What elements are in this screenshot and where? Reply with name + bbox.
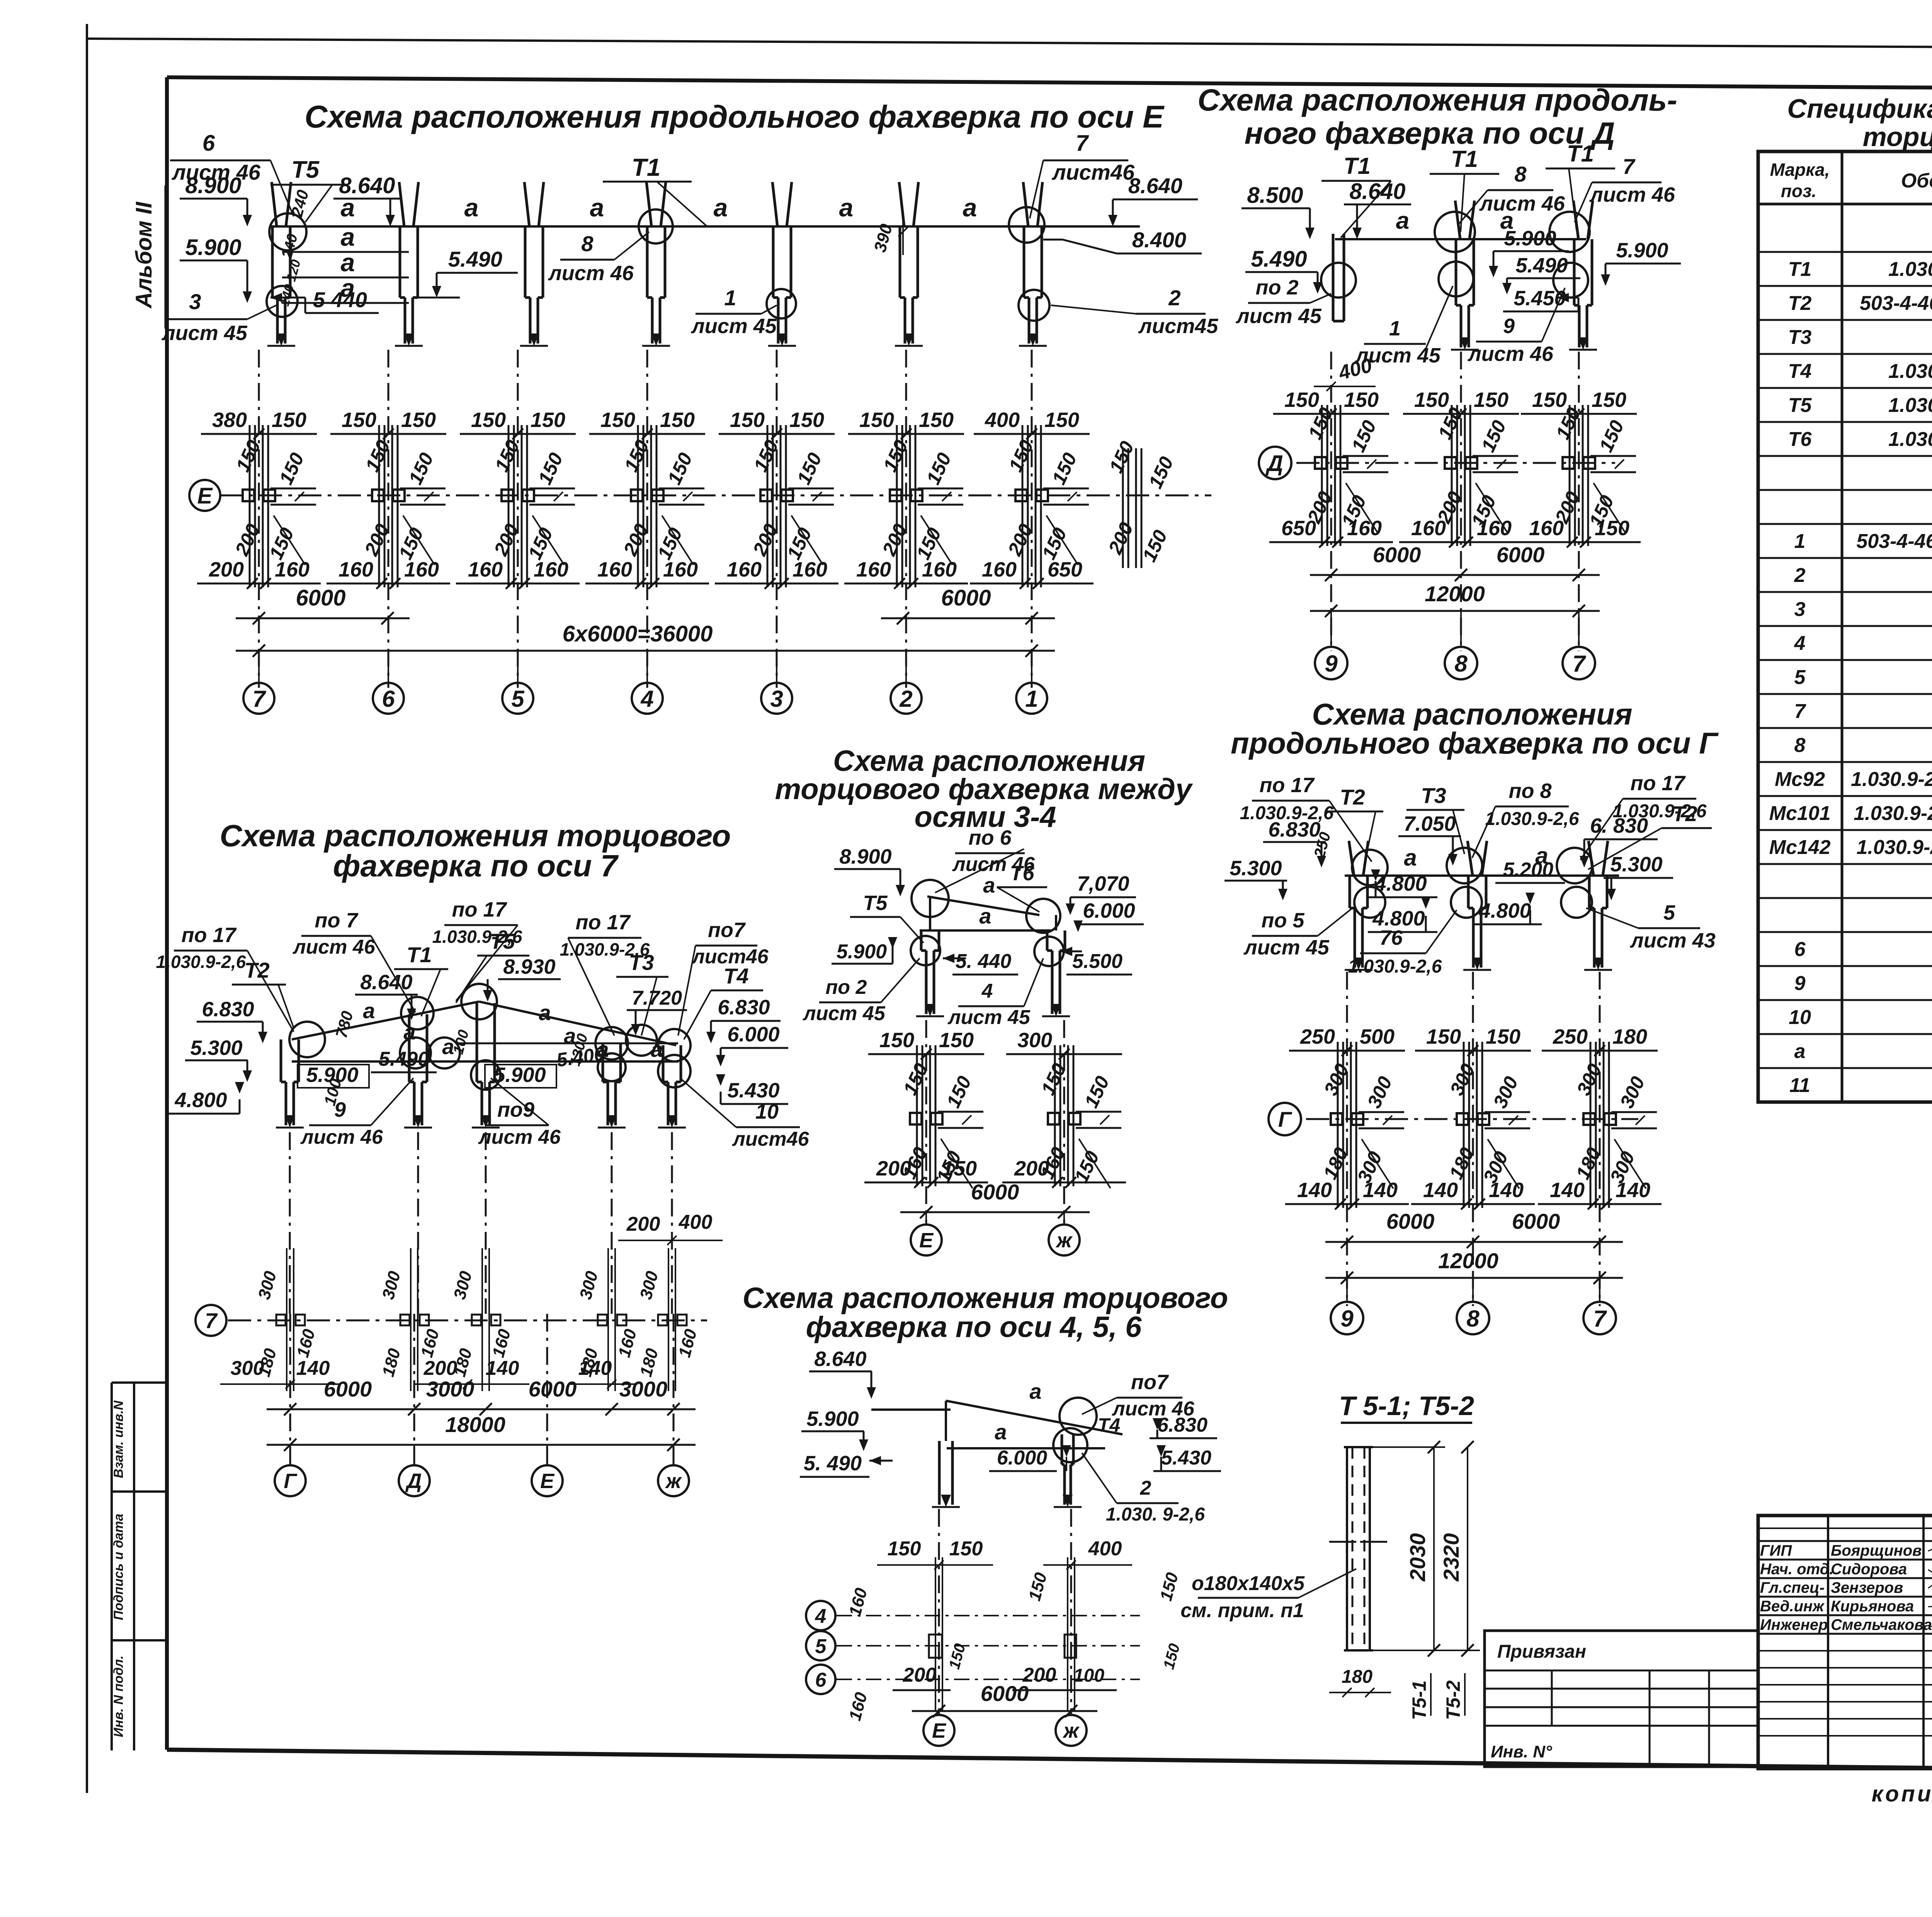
svg-text:а: а bbox=[995, 1420, 1007, 1444]
callout po9 list46 axis7 bbox=[478, 1078, 561, 1148]
plan right offset section axis E bbox=[1104, 438, 1178, 568]
svg-text:5: 5 bbox=[1794, 666, 1806, 689]
svg-text:5.900: 5.900 bbox=[806, 1407, 859, 1431]
callout po7 list46 axis7 bbox=[292, 909, 415, 1012]
svg-text:поз.: поз. bbox=[1781, 181, 1816, 201]
svg-text:Инженер: Инженер bbox=[1760, 1616, 1828, 1633]
svg-text:150: 150 bbox=[1344, 388, 1379, 412]
svg-text:а: а bbox=[341, 223, 355, 251]
axis circle 6 bbox=[373, 651, 404, 714]
svg-text:400: 400 bbox=[985, 408, 1020, 432]
plan section axis 4 on E bbox=[585, 408, 709, 589]
spec table heading bbox=[1787, 94, 1932, 152]
svg-text:11: 11 bbox=[1789, 1074, 1810, 1097]
callout 7.050 axis G bbox=[1398, 812, 1461, 866]
elevation 5.900 boxed left axis7 bbox=[298, 1063, 369, 1088]
svg-text:а: а bbox=[590, 193, 604, 222]
dim row 6000 3000 axis7 bbox=[267, 1377, 696, 1415]
rot dims 780 100 axis7 bbox=[320, 1009, 591, 1107]
svg-text:160: 160 bbox=[468, 558, 503, 581]
spec row 7 bbox=[1758, 693, 1932, 695]
spec row Детали bbox=[1758, 897, 1932, 899]
svg-text:140: 140 bbox=[578, 1357, 612, 1379]
svg-text:1.030.9-2 Вып. 4: 1.030.9-2 Вып. 4 bbox=[1888, 428, 1932, 451]
svg-text:5.200: 5.200 bbox=[1503, 859, 1553, 881]
column axis E #6 bbox=[395, 182, 423, 346]
svg-text:лист 46: лист 46 bbox=[292, 936, 376, 958]
svg-text:7,070: 7,070 bbox=[1077, 872, 1129, 895]
svg-text:лист 45: лист 45 bbox=[802, 1002, 886, 1025]
dim row 18000 axis7 bbox=[267, 1412, 696, 1451]
axis circle 8 on D bbox=[1445, 611, 1477, 679]
svg-text:а: а bbox=[714, 193, 728, 222]
svg-text:6000: 6000 bbox=[971, 1180, 1019, 1204]
callout po17 right axis7 bbox=[560, 911, 650, 1036]
column axis E #1 bbox=[1019, 182, 1047, 346]
callout T2 right axis G bbox=[1588, 801, 1712, 869]
svg-text:1: 1 bbox=[1389, 317, 1401, 340]
svg-text:3000: 3000 bbox=[619, 1377, 668, 1401]
elevation 6.000 right axis7 bbox=[716, 1023, 788, 1067]
spec row Т1 bbox=[1758, 251, 1932, 253]
svg-text:1.030.9-2 Вып. 4: 1.030.9-2 Вып. 4 bbox=[1888, 394, 1932, 417]
svg-text:Смельчакова: Смельчакова bbox=[1831, 1616, 1932, 1633]
svg-text:6.830: 6.830 bbox=[1157, 1414, 1207, 1436]
plan section 7 on G bbox=[1538, 1025, 1662, 1209]
plan section col0 on axis7 bbox=[255, 1248, 319, 1391]
svg-text:5.300: 5.300 bbox=[190, 1036, 242, 1060]
callout po17 left axis G bbox=[1240, 774, 1372, 862]
svg-text:12000: 12000 bbox=[1425, 582, 1485, 606]
svg-text:6000: 6000 bbox=[1386, 1209, 1435, 1233]
elevation 5.300 left axis G bbox=[1225, 857, 1287, 900]
svg-text:Мс101: Мс101 bbox=[1769, 802, 1831, 825]
svg-text:650: 650 bbox=[1048, 558, 1082, 581]
detail T5 row labels bbox=[1408, 1673, 1465, 1720]
spec row Т5 bbox=[1758, 387, 1932, 389]
svg-text:8: 8 bbox=[581, 231, 594, 256]
detail T5 dim 2320 bbox=[1373, 1441, 1480, 1657]
svg-text:по 6: по 6 bbox=[968, 826, 1012, 849]
svg-text:6000: 6000 bbox=[529, 1377, 577, 1401]
svg-text:180: 180 bbox=[1342, 1667, 1372, 1687]
dim row 6000 4-5-6 bbox=[912, 1681, 1097, 1717]
svg-text:Схема расположения продольного: Схема расположения продольного фахверка … bbox=[304, 99, 1165, 134]
svg-text:150: 150 bbox=[1532, 388, 1567, 412]
detail T5 dim 2030 bbox=[1373, 1441, 1445, 1657]
svg-text:200: 200 bbox=[876, 1157, 911, 1180]
svg-text:по 2: по 2 bbox=[826, 976, 867, 998]
spec table grid bbox=[1758, 151, 1932, 1102]
spec row 5 bbox=[1758, 659, 1932, 661]
svg-text:лист 46: лист 46 bbox=[478, 1126, 561, 1148]
svg-text:160: 160 bbox=[982, 558, 1017, 581]
svg-text:150: 150 bbox=[730, 408, 765, 432]
svg-text:5.490: 5.490 bbox=[1515, 254, 1568, 277]
svg-text:Мс142: Мс142 bbox=[1769, 836, 1831, 859]
circles axis D bbox=[1321, 212, 1590, 298]
svg-text:Инв. N°: Инв. N° bbox=[1491, 1742, 1552, 1761]
column axis G #1 bbox=[1463, 841, 1491, 970]
svg-text:а: а bbox=[1029, 1379, 1041, 1403]
plan centerline axis 7 scheme bbox=[196, 1305, 707, 1336]
svg-text:160: 160 bbox=[922, 558, 957, 581]
elevation 4.800 labels axis G bbox=[1368, 869, 1542, 932]
svg-text:150: 150 bbox=[1426, 1025, 1461, 1048]
axis circle Е on axis7 bbox=[532, 1445, 563, 1496]
svg-text:4.800: 4.800 bbox=[1478, 899, 1531, 922]
callout 9 list46 axis7 bbox=[300, 1078, 413, 1148]
elevation 8.640 axis E bbox=[333, 173, 401, 226]
svg-text:150: 150 bbox=[949, 1538, 983, 1560]
svg-text:Т5: Т5 bbox=[490, 929, 515, 953]
svg-text:Т4: Т4 bbox=[723, 964, 748, 988]
callout T6 3-4 bbox=[997, 862, 1047, 912]
svg-text:150: 150 bbox=[660, 408, 695, 432]
elevation 8.640 axis7 bbox=[355, 971, 418, 1020]
svg-text:160: 160 bbox=[275, 558, 310, 581]
svg-text:Т2: Т2 bbox=[1672, 801, 1697, 826]
svg-text:4: 4 bbox=[981, 980, 993, 1002]
svg-text:см. прим. п1: см. прим. п1 bbox=[1180, 1599, 1304, 1622]
svg-text:Схема расположения продоль-: Схема расположения продоль- bbox=[1197, 83, 1677, 117]
svg-text:140: 140 bbox=[1423, 1179, 1458, 1202]
elevation 5.900 4-5-6 bbox=[801, 1407, 868, 1451]
beam T1 top chord axis E bbox=[270, 153, 1140, 226]
spec row 10 bbox=[1758, 999, 1932, 1001]
svg-text:5.430: 5.430 bbox=[1161, 1447, 1211, 1469]
svg-text:фахверка по оси 4, 5, 6: фахверка по оси 4, 5, 6 bbox=[806, 1311, 1142, 1344]
top line and slope 4-5-6 bbox=[871, 1379, 1122, 1448]
svg-text:300: 300 bbox=[231, 1357, 264, 1379]
svg-text:2320: 2320 bbox=[1439, 1533, 1463, 1582]
axis circle Д on axis7 bbox=[399, 1445, 430, 1496]
callout po7 list46 4-5-6 bbox=[1082, 1371, 1195, 1420]
svg-text:Т3: Т3 bbox=[1788, 326, 1812, 349]
dim 400 axis D bbox=[1314, 354, 1376, 391]
column axis E #3 bbox=[768, 182, 796, 346]
callout 2 1.030.9-2,6 4-5-6 bbox=[1082, 1453, 1205, 1525]
axis verticals 3-4 bbox=[926, 1020, 1064, 1223]
elevation 6.830 right axis G bbox=[1580, 814, 1658, 867]
svg-text:8: 8 bbox=[1454, 651, 1468, 677]
elevation 5.300 axis7 bbox=[185, 1036, 252, 1082]
svg-text:торцового фахверка перегоро: торцового фахверка перегородок bbox=[1863, 122, 1932, 152]
callout T1 axis7 bbox=[394, 942, 448, 1016]
svg-text:150: 150 bbox=[789, 408, 824, 432]
svg-text:а: а bbox=[839, 193, 854, 222]
dim row 12000 axis D bbox=[1310, 582, 1600, 617]
elevation 8.500 axis D bbox=[1242, 183, 1315, 239]
svg-text:5.900: 5.900 bbox=[185, 235, 241, 260]
axis circle 2 bbox=[891, 651, 922, 714]
svg-text:150: 150 bbox=[888, 1538, 921, 1560]
svg-text:а: а bbox=[539, 1000, 551, 1025]
elevation 8.640 axis D bbox=[1344, 179, 1411, 239]
elevation 6.830 4-5-6 bbox=[1150, 1414, 1217, 1438]
svg-text:Схема расположения торцового: Схема расположения торцового bbox=[220, 818, 731, 853]
elevation 8.640 4-5-6 bbox=[809, 1347, 876, 1399]
svg-text:5.900: 5.900 bbox=[493, 1063, 546, 1087]
elevation 6.830 left axis G bbox=[1263, 818, 1326, 867]
columns 3-4 bbox=[916, 896, 1070, 1016]
svg-text:6000: 6000 bbox=[941, 585, 991, 611]
svg-text:1.030.9-2 Вып. 7часть2: 1.030.9-2 Вып. 7часть2 bbox=[1851, 768, 1932, 791]
svg-text:503-4-46.87- КЖИ-Т5-1: 503-4-46.87- КЖИ-Т5-1 bbox=[1860, 292, 1932, 315]
svg-text:5.490: 5.490 bbox=[448, 247, 502, 271]
svg-text:100: 100 bbox=[1073, 1665, 1104, 1686]
callout T3 axis7 bbox=[616, 950, 668, 1036]
svg-text:по 2: по 2 bbox=[1255, 276, 1298, 299]
elevation 5.490 axis7 bbox=[371, 1048, 437, 1072]
svg-text:3: 3 bbox=[189, 289, 201, 314]
svg-text:Т5: Т5 bbox=[863, 891, 888, 915]
callout T5 bbox=[270, 156, 348, 222]
svg-text:по 7: по 7 bbox=[315, 909, 359, 932]
svg-text:лист 43: лист 43 bbox=[1629, 929, 1716, 952]
axis verticals axis D bbox=[1331, 352, 1579, 651]
elevation 5.440 axis E bbox=[270, 287, 379, 313]
svg-text:150: 150 bbox=[531, 408, 565, 432]
plan section axis 1 on E bbox=[970, 408, 1094, 589]
svg-text:лист 45: лист 45 bbox=[1235, 304, 1322, 328]
svg-text:5.430: 5.430 bbox=[727, 1079, 779, 1102]
svg-text:7: 7 bbox=[252, 686, 266, 712]
spec row 8 bbox=[1758, 727, 1932, 729]
svg-text:Подпись и дата: Подпись и дата bbox=[111, 1514, 126, 1620]
plan section axis 3 on E bbox=[715, 408, 838, 589]
spec row Изделиясоединительные bbox=[1758, 489, 1932, 491]
callout T2 axis G bbox=[1325, 785, 1383, 866]
svg-text:380: 380 bbox=[212, 408, 247, 432]
callout po17 peak axis7 bbox=[432, 898, 522, 1001]
svg-text:5.300: 5.300 bbox=[1230, 857, 1282, 880]
svg-text:8.900: 8.900 bbox=[185, 173, 241, 198]
svg-text:а: а bbox=[341, 248, 355, 277]
svg-text:140: 140 bbox=[1550, 1179, 1585, 1202]
callout po5 list45 axis G bbox=[1243, 908, 1352, 959]
privyazan box bbox=[1485, 1631, 1758, 1767]
callout 6.000 3-4 bbox=[1073, 899, 1144, 932]
svg-text:6.000: 6.000 bbox=[727, 1023, 779, 1046]
elevation 5.900 3-4 bbox=[832, 937, 897, 964]
svg-text:6: 6 bbox=[815, 1669, 827, 1691]
detail T5 column body bbox=[1329, 1447, 1387, 1650]
svg-text:150: 150 bbox=[1595, 517, 1629, 540]
svg-text:лист 45: лист 45 bbox=[1243, 936, 1330, 959]
callout 8.900 3-4 bbox=[834, 845, 905, 896]
dim row 36000 axis E bbox=[236, 621, 1055, 657]
svg-text:160: 160 bbox=[338, 558, 373, 581]
svg-text:ж: ж bbox=[665, 1470, 682, 1493]
svg-text:10: 10 bbox=[1789, 1006, 1811, 1029]
svg-text:Т3: Т3 bbox=[629, 950, 654, 975]
svg-text:а: а bbox=[464, 193, 479, 222]
svg-text:18000: 18000 bbox=[445, 1412, 505, 1437]
svg-text:копировал Муртазина: копировал Муртазина bbox=[1872, 1781, 1932, 1806]
svg-text:150: 150 bbox=[859, 408, 894, 432]
spec row Т2 bbox=[1758, 285, 1932, 287]
svg-text:150: 150 bbox=[272, 408, 306, 432]
callout 5 list43 axis G bbox=[1586, 901, 1716, 952]
callout 7.070 3-4 bbox=[1066, 872, 1136, 915]
svg-text:1.030.9-2Вып.7часть 2: 1.030.9-2Вып.7часть 2 bbox=[1854, 802, 1932, 825]
axis circle Г on axis7 bbox=[275, 1445, 306, 1496]
svg-text:1: 1 bbox=[1794, 530, 1806, 553]
svg-text:6.830: 6.830 bbox=[1268, 818, 1320, 841]
detail T5-1 T5-2 title bbox=[1339, 1391, 1474, 1423]
callout T4 4-5-6 bbox=[1098, 1414, 1120, 1436]
axis verticals axis 7 scheme bbox=[290, 1132, 673, 1465]
dim 390 axis E bbox=[871, 216, 908, 255]
svg-text:по 17: по 17 bbox=[575, 911, 631, 934]
callout po17 right axis G bbox=[1580, 772, 1707, 860]
axis circle ж on axis7 bbox=[658, 1445, 689, 1496]
axis circle 1 bbox=[1016, 651, 1047, 714]
callout T5 3-4 bbox=[850, 891, 923, 943]
svg-text:3: 3 bbox=[770, 686, 783, 712]
footer annotations bbox=[1872, 1781, 1932, 1806]
svg-text:7: 7 bbox=[1572, 651, 1586, 677]
svg-text:1.030.9-2.Вып. 4: 1.030.9-2.Вып. 4 bbox=[1888, 360, 1932, 383]
svg-text:лист 46: лист 46 bbox=[1589, 183, 1675, 206]
svg-text:200: 200 bbox=[423, 1357, 457, 1379]
svg-text:Т2: Т2 bbox=[244, 958, 269, 982]
svg-text:250: 250 bbox=[1300, 1025, 1335, 1048]
svg-text:7: 7 bbox=[1593, 1306, 1607, 1332]
axis circle 9 on G bbox=[1331, 1278, 1363, 1334]
axis circle 7 bbox=[243, 651, 274, 714]
beam line axis G bbox=[1345, 843, 1619, 876]
svg-text:9: 9 bbox=[1503, 315, 1515, 338]
svg-text:Т6: Т6 bbox=[1010, 862, 1034, 885]
svg-text:5. 440: 5. 440 bbox=[956, 950, 1012, 973]
svg-text:5: 5 bbox=[1663, 901, 1675, 924]
svg-text:6.000: 6.000 bbox=[997, 1447, 1047, 1469]
svg-text:Т4: Т4 bbox=[1098, 1414, 1120, 1436]
svg-text:по 17: по 17 bbox=[1259, 774, 1315, 797]
scheme axis G title bbox=[1231, 697, 1719, 760]
svg-text:140: 140 bbox=[1489, 1179, 1524, 1202]
svg-text:а: а bbox=[1404, 845, 1417, 871]
plan section axis 9 on D bbox=[1269, 388, 1393, 548]
callout T4 axis7 bbox=[684, 964, 763, 1039]
svg-text:150: 150 bbox=[1474, 388, 1509, 412]
spec row 11 bbox=[1758, 1067, 1932, 1069]
plan section 9 on G bbox=[1285, 1025, 1409, 1209]
elevation 7.720 axis7 bbox=[627, 987, 687, 1036]
svg-text:2030: 2030 bbox=[1405, 1533, 1430, 1582]
svg-text:8.930: 8.930 bbox=[503, 955, 555, 978]
elevation 5.900 mid axis D bbox=[1489, 227, 1569, 277]
svg-text:Обозначение: Обозначение bbox=[1901, 170, 1932, 192]
plan section axis 7 on E bbox=[197, 408, 321, 589]
dim row 12000 axis G bbox=[1325, 1249, 1623, 1284]
svg-text:по 17: по 17 bbox=[181, 924, 237, 947]
elevation 5.500 3-4 bbox=[1061, 947, 1132, 975]
elevation 5.490 axis E bbox=[415, 247, 518, 298]
svg-text:1.030. 9-2,6: 1.030. 9-2,6 bbox=[1106, 1504, 1205, 1525]
svg-text:5: 5 bbox=[815, 1635, 827, 1658]
column axis D right bbox=[1546, 141, 1615, 350]
axis verticals axis E bbox=[259, 350, 1032, 688]
svg-text:5. 490: 5. 490 bbox=[804, 1452, 862, 1475]
svg-text:5.490: 5.490 bbox=[1251, 247, 1307, 272]
elevation 5.430 axis7 bbox=[716, 1074, 788, 1104]
svg-text:Т2: Т2 bbox=[1788, 292, 1812, 315]
svg-text:400: 400 bbox=[679, 1211, 713, 1233]
column axis E #5 bbox=[520, 182, 548, 346]
spec row Мс92 bbox=[1758, 761, 1932, 763]
right column 4-5-6 bbox=[1054, 1434, 1082, 1507]
svg-text:Мс92: Мс92 bbox=[1775, 768, 1825, 791]
column axis7 #0 bbox=[276, 1039, 304, 1128]
svg-text:503-4-46.87 - КЖИ-МС2: 503-4-46.87 - КЖИ-МС2 bbox=[1856, 530, 1932, 553]
axis circle 5 bbox=[502, 651, 533, 714]
svg-text:лист 46: лист 46 bbox=[300, 1126, 383, 1148]
plan section axis 6 on E bbox=[327, 408, 450, 589]
svg-text:а: а bbox=[363, 998, 375, 1023]
svg-text:150: 150 bbox=[1486, 1025, 1520, 1048]
callout 1 list 45 bbox=[690, 286, 777, 338]
title block staff grid bbox=[1758, 1516, 1932, 1769]
svg-text:лист 45: лист 45 bbox=[161, 321, 248, 345]
svg-text:8.500: 8.500 bbox=[1247, 183, 1303, 208]
callout po7 right axis7 bbox=[678, 919, 769, 1036]
detail T5 annotation bbox=[1180, 1569, 1356, 1622]
svg-text:5.900: 5.900 bbox=[1616, 239, 1668, 262]
svg-text:а: а bbox=[979, 904, 991, 928]
svg-text:лист 46: лист 46 bbox=[1479, 192, 1565, 215]
svg-text:Е: Е bbox=[197, 483, 213, 509]
circles axis G bbox=[1352, 848, 1592, 918]
elevation 8.900 axis E bbox=[180, 173, 252, 226]
callout T3 axis G bbox=[1406, 783, 1464, 854]
svg-text:6000: 6000 bbox=[1497, 543, 1545, 567]
a labels axis 7 bbox=[363, 998, 663, 1061]
spec row 4 bbox=[1758, 625, 1932, 627]
svg-text:6: 6 bbox=[1794, 938, 1806, 961]
plan centerline axis G bbox=[1269, 1103, 1638, 1135]
title block outline bbox=[1758, 1516, 1932, 1769]
svg-text:по7: по7 bbox=[708, 919, 746, 942]
elevation 4.800 axis7 bbox=[168, 1082, 244, 1114]
elevation 6.830 right axis7 bbox=[706, 996, 781, 1043]
column axis D middle bbox=[1430, 146, 1499, 350]
svg-text:200: 200 bbox=[209, 558, 244, 581]
svg-text:12000: 12000 bbox=[1438, 1249, 1498, 1273]
svg-text:по 8: по 8 bbox=[1509, 779, 1551, 803]
svg-text:8.900: 8.900 bbox=[839, 845, 891, 868]
svg-text:150: 150 bbox=[939, 1029, 974, 1052]
elevation 5.490 4-5-6 bbox=[800, 1452, 893, 1477]
svg-text:160: 160 bbox=[1411, 517, 1446, 540]
axis circle 7 on G bbox=[1583, 1278, 1616, 1334]
svg-text:6: 6 bbox=[382, 686, 395, 712]
svg-text:500: 500 bbox=[1360, 1025, 1395, 1048]
elevation 5.300 right axis G bbox=[1604, 853, 1673, 900]
svg-text:Сидорова: Сидорова bbox=[1831, 1561, 1907, 1578]
circles 3-4 bbox=[911, 880, 1064, 966]
column axis7 #2 bbox=[472, 1003, 500, 1128]
svg-text:300: 300 bbox=[1017, 1029, 1052, 1052]
svg-text:Е: Е bbox=[919, 1229, 934, 1252]
svg-text:Г: Г bbox=[1278, 1107, 1293, 1131]
svg-text:150: 150 bbox=[471, 408, 506, 432]
spec row 3 bbox=[1758, 591, 1932, 593]
svg-text:Спецификация к схемам распо: Спецификация к схемам расположения продо… bbox=[1787, 94, 1932, 124]
svg-text:8: 8 bbox=[1466, 1306, 1480, 1332]
